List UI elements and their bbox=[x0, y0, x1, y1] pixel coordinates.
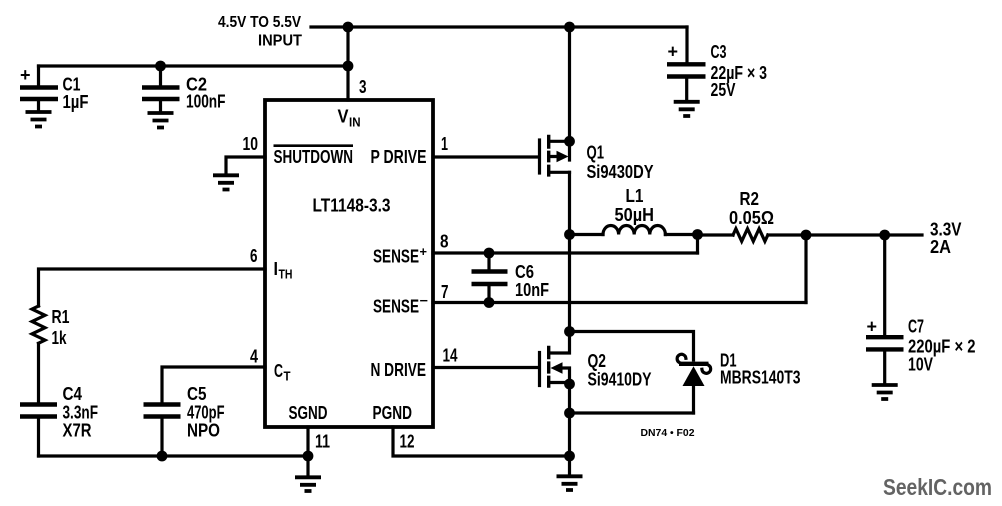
label D1 MBRS140T3 bbox=[720, 351, 801, 388]
resistor R1 bbox=[32, 306, 45, 343]
svg-text:C: C bbox=[274, 361, 283, 381]
svg-text:1k: 1k bbox=[52, 328, 68, 348]
svg-text:C4: C4 bbox=[63, 384, 83, 404]
svg-text:2A: 2A bbox=[930, 237, 951, 257]
capacitor C4 bbox=[20, 405, 57, 457]
svg-text:R2: R2 bbox=[740, 189, 760, 209]
label SENSE minus bbox=[373, 293, 428, 317]
capacitor C2 bbox=[142, 66, 180, 111]
label Ith bbox=[274, 259, 293, 282]
node D1 anode junction bbox=[564, 408, 575, 419]
wire R1 to C4 bbox=[37, 344, 40, 403]
node R2 output junction bbox=[801, 230, 812, 241]
label C1 1uF bbox=[63, 75, 89, 113]
node power ground junction bbox=[564, 451, 575, 462]
capacitor C1 bbox=[20, 65, 58, 110]
node C2 top junction bbox=[155, 61, 166, 72]
svg-text:8: 8 bbox=[440, 232, 449, 252]
svg-text:V: V bbox=[338, 107, 349, 127]
label Ct bbox=[274, 361, 291, 384]
wire R2 junction down to sense minus line bbox=[804, 235, 807, 303]
svg-text:INPUT: INPUT bbox=[258, 33, 302, 50]
svg-text:Q2: Q2 bbox=[588, 351, 607, 371]
transistor Q2 bbox=[540, 332, 570, 388]
svg-text:12: 12 bbox=[400, 432, 415, 452]
svg-text:SeekIC.com: SeekIC.com bbox=[883, 474, 992, 500]
svg-text:DN74 • F02: DN74 • F02 bbox=[641, 427, 695, 439]
svg-text:11: 11 bbox=[315, 432, 330, 452]
wire C1 C2 rail bbox=[39, 64, 349, 67]
label L1 50uH bbox=[615, 186, 655, 225]
node Q2 drain junction bbox=[564, 326, 575, 337]
node switch node junction bbox=[564, 229, 575, 240]
svg-text:X7R: X7R bbox=[63, 421, 92, 441]
svg-text:10V: 10V bbox=[908, 355, 933, 375]
node Q1 drain dot bbox=[564, 136, 575, 147]
svg-text:IN: IN bbox=[349, 115, 361, 130]
wire sense minus line bbox=[433, 301, 806, 304]
label C3 22uF x3 25V bbox=[711, 42, 768, 100]
svg-text:LT1148-3.3: LT1148-3.3 bbox=[313, 196, 391, 216]
label SENSE plus bbox=[373, 244, 427, 267]
svg-text:100nF: 100nF bbox=[186, 92, 226, 112]
svg-text:7: 7 bbox=[441, 282, 449, 302]
node C6 top junction bbox=[484, 248, 495, 259]
ground under C3 bbox=[674, 102, 700, 116]
svg-text:Q1: Q1 bbox=[587, 143, 605, 163]
label R1 1k bbox=[52, 307, 70, 348]
capacitor C3 bbox=[667, 42, 706, 100]
svg-text:50µH: 50µH bbox=[615, 205, 655, 225]
diode D1 schottky bbox=[677, 354, 711, 413]
label C7 220uF x2 10V bbox=[908, 317, 976, 375]
label 4.5V TO 5.5V INPUT bbox=[218, 14, 302, 50]
wire output rail bbox=[806, 233, 922, 236]
wire SGND pin down bbox=[306, 427, 309, 475]
svg-text:C7: C7 bbox=[908, 317, 924, 337]
svg-text:10nF: 10nF bbox=[515, 280, 549, 300]
node input junction A bbox=[343, 22, 354, 33]
wire Ith pin to left column bbox=[39, 269, 266, 306]
node L1 right junction bbox=[692, 229, 703, 240]
svg-text:L1: L1 bbox=[626, 186, 644, 206]
ground at shutdown bbox=[213, 175, 239, 189]
svg-text:R1: R1 bbox=[52, 307, 70, 327]
svg-text:1µF: 1µF bbox=[63, 92, 89, 112]
svg-text:10: 10 bbox=[243, 134, 259, 154]
wire PGND pin to power ground bbox=[393, 427, 570, 456]
wire bottom left rail bbox=[39, 454, 309, 457]
node Q2 source junction bbox=[564, 379, 575, 390]
svg-text:N DRIVE: N DRIVE bbox=[371, 360, 427, 380]
wire L1 junction down to sense plus line bbox=[696, 235, 699, 254]
svg-text:25V: 25V bbox=[711, 80, 736, 100]
node SGND junction bbox=[303, 451, 314, 462]
svg-text:+: + bbox=[420, 244, 428, 259]
svg-text:NPO: NPO bbox=[187, 421, 220, 441]
svg-text:1: 1 bbox=[441, 134, 448, 154]
ground at SGND bbox=[295, 477, 321, 491]
svg-text:T: T bbox=[284, 369, 291, 384]
svg-text:470pF: 470pF bbox=[187, 403, 225, 423]
svg-text:6: 6 bbox=[250, 246, 258, 266]
wire N DRIVE to Q2 gate bbox=[433, 366, 538, 369]
svg-text:SENSE: SENSE bbox=[373, 247, 419, 267]
wire Q2 drain to D1 cathode bbox=[570, 332, 694, 361]
svg-text:C3: C3 bbox=[711, 42, 727, 62]
svg-text:3.3nF: 3.3nF bbox=[63, 403, 99, 423]
svg-text:MBRS140T3: MBRS140T3 bbox=[720, 368, 801, 388]
svg-text:Si9430DY: Si9430DY bbox=[587, 162, 654, 182]
label R2 0.05ohm bbox=[729, 189, 774, 228]
svg-text:+: + bbox=[867, 317, 878, 337]
label Q2 Si9410DY bbox=[588, 351, 652, 390]
wire input rail bbox=[311, 25, 687, 28]
label C5 470pF NPO bbox=[187, 384, 225, 441]
label 3.3V 2A bbox=[930, 220, 962, 258]
svg-text:Si9410DY: Si9410DY bbox=[588, 370, 652, 390]
ground at Q2 bbox=[557, 476, 583, 490]
capacitor C5 bbox=[144, 405, 181, 457]
svg-text:SGND: SGND bbox=[289, 403, 328, 423]
svg-text:I: I bbox=[274, 259, 279, 279]
svg-text:4.5V TO 5.5V: 4.5V TO 5.5V bbox=[218, 14, 301, 31]
ground under C7 bbox=[872, 385, 898, 399]
wire Q1 bottom to switch node and Q2 bbox=[568, 172, 571, 331]
wire input down to Vin pin 3 bbox=[346, 27, 349, 100]
svg-text:14: 14 bbox=[443, 346, 458, 366]
node input junction B bbox=[564, 22, 575, 33]
capacitor C7 bbox=[866, 235, 904, 383]
wire input rail down to C3 bbox=[685, 27, 688, 62]
inductor L1 bbox=[570, 226, 698, 235]
svg-text:P DRIVE: P DRIVE bbox=[371, 147, 427, 167]
svg-text:TH: TH bbox=[279, 267, 293, 282]
wire D1 anode to power ground bbox=[570, 411, 694, 414]
wire Ct pin to C5 bbox=[162, 367, 265, 402]
svg-text:C5: C5 bbox=[187, 384, 207, 404]
capacitor C6 bbox=[472, 253, 508, 303]
ground under C1 bbox=[26, 112, 52, 127]
label Vin bbox=[338, 107, 361, 130]
label SHUTDOWN with overline bbox=[274, 146, 354, 167]
svg-text:SHUTDOWN: SHUTDOWN bbox=[274, 147, 354, 167]
label C6 10nF bbox=[515, 262, 549, 300]
node C2 rail junction bbox=[343, 61, 354, 72]
svg-text:+: + bbox=[20, 65, 31, 85]
node C5 bottom junction bbox=[157, 451, 168, 462]
wire Q2 source down to power ground bbox=[568, 384, 571, 474]
label C4 3.3nF X7R bbox=[63, 384, 99, 441]
node C6 bottom junction bbox=[484, 297, 495, 308]
svg-text:4: 4 bbox=[250, 347, 258, 367]
wire P DRIVE to Q1 gate bbox=[433, 155, 538, 158]
svg-text:−: − bbox=[420, 293, 429, 308]
node output junction bbox=[879, 230, 890, 241]
svg-text:0.05Ω: 0.05Ω bbox=[729, 208, 774, 228]
label Q1 Si9430DY bbox=[587, 143, 654, 183]
svg-text:PGND: PGND bbox=[373, 403, 413, 423]
svg-text:SENSE: SENSE bbox=[373, 297, 419, 317]
svg-text:3: 3 bbox=[359, 77, 367, 97]
wire sense plus line bbox=[433, 251, 698, 254]
ground under C2 bbox=[148, 113, 174, 128]
label C2 100nF bbox=[186, 75, 226, 112]
wire input rail to Q1 top bbox=[568, 27, 571, 160]
svg-text:+: + bbox=[668, 42, 679, 62]
svg-text:C6: C6 bbox=[515, 262, 534, 282]
op IC U1 LT1148-3.3 box bbox=[265, 100, 433, 427]
svg-text:220µF × 2: 220µF × 2 bbox=[908, 337, 976, 357]
resistor R2 bbox=[698, 229, 807, 242]
transistor Q1 bbox=[540, 135, 570, 177]
wire shutdown pin to ground bbox=[226, 157, 265, 174]
